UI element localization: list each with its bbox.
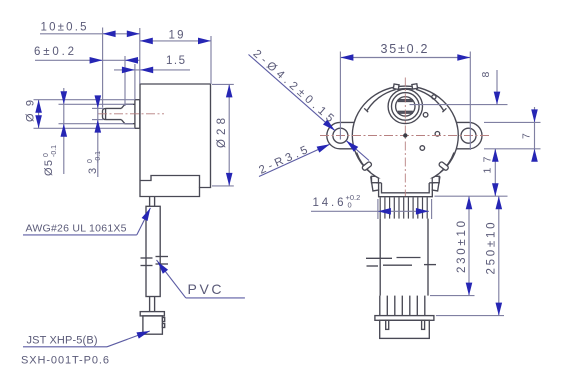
front view centerlines xyxy=(320,135,491,137)
arrow dim dia5 bottom xyxy=(61,124,68,137)
svg-text:-0.1: -0.1 xyxy=(95,151,102,163)
arrow dim 10 left xyxy=(103,31,116,38)
arrow dim 3 bottom xyxy=(95,120,102,133)
dim 7 line xyxy=(534,107,536,161)
can lip arc bottom-right xyxy=(440,153,454,173)
rim tick upper-left xyxy=(364,108,368,112)
right foot tab xyxy=(429,176,440,191)
connector front leg 2 xyxy=(422,320,425,329)
ext line body right xyxy=(210,36,212,84)
svg-text:JST XHP-5(B): JST XHP-5(B) xyxy=(27,334,98,346)
cable exit housing interior mask xyxy=(379,178,431,196)
rim tick upper-right xyxy=(442,108,446,112)
arrow dim 14.6 right xyxy=(416,208,429,215)
dim 35 line xyxy=(340,57,470,59)
can lip inner arc top xyxy=(367,89,444,111)
arrow dim 7 bottom xyxy=(531,149,538,162)
svg-text:0: 0 xyxy=(348,201,352,210)
svg-text:PVC: PVC xyxy=(188,281,222,297)
connector side view flange xyxy=(140,312,164,316)
arrow dim 1.5 left xyxy=(122,67,135,74)
svg-text:6±0.2: 6±0.2 xyxy=(34,46,74,58)
arrow dim 35 right xyxy=(457,54,470,61)
housing top caps xyxy=(376,182,381,184)
arrow dim 19 left xyxy=(140,38,153,45)
shaft collar xyxy=(135,100,140,129)
can lip arc bottom-left xyxy=(357,153,371,173)
face hole 1 xyxy=(423,113,428,118)
ext line shaft tip xyxy=(102,28,104,108)
right step block xyxy=(432,176,439,182)
shaft boss inner circle xyxy=(392,93,420,121)
bottom wires xyxy=(379,296,381,316)
connector side view body xyxy=(143,316,163,334)
arrow dim 19 right xyxy=(198,38,211,45)
center dot xyxy=(403,133,407,137)
left step block xyxy=(372,176,379,182)
cable exit housing outer xyxy=(379,183,433,197)
right ear hole xyxy=(461,128,476,143)
arrow dim 230 top xyxy=(466,196,473,209)
connector latch bumps xyxy=(162,318,164,322)
cable break dashes xyxy=(366,257,392,259)
leader lines xyxy=(23,55,369,347)
dim 10+-0.5 line xyxy=(40,33,140,35)
svg-text:Ø28: Ø28 xyxy=(216,118,228,148)
arrow leader dia4.2 lower xyxy=(344,138,358,152)
sleeve break marks xyxy=(141,257,153,259)
arrow dim dia28 bottom xyxy=(226,173,233,186)
connector front body xyxy=(380,320,430,338)
rim slot lower-right xyxy=(438,161,449,171)
leader JST xyxy=(23,346,107,348)
shaft boss outer circle xyxy=(388,89,422,123)
ribbon cable edges xyxy=(379,219,381,296)
arrow dim 14.6 left xyxy=(378,208,391,215)
arrow dim 17 top xyxy=(492,149,499,162)
left mounting ear xyxy=(327,122,371,148)
svg-text:Ø5: Ø5 xyxy=(43,160,55,176)
arrow dim dia5 top xyxy=(61,91,68,104)
arrow dim dia28 top xyxy=(226,84,233,97)
arrow dim 1.5 right xyxy=(140,67,153,74)
face hole 2 xyxy=(435,132,440,137)
dim 230 line xyxy=(468,196,470,295)
arrow dim 3 top xyxy=(95,95,102,108)
dim 19 line xyxy=(140,40,211,42)
dim dia9 line xyxy=(38,100,40,129)
face hole 3 xyxy=(420,146,425,151)
shaft centerline (side view) xyxy=(98,113,164,115)
svg-text:1.5: 1.5 xyxy=(166,55,185,67)
dim 1.5 line xyxy=(114,69,190,71)
svg-text:0: 0 xyxy=(43,153,50,157)
PVC sleeve tube xyxy=(146,206,160,296)
arrow dim 8 xyxy=(494,92,501,105)
dim 6+-0.2 line xyxy=(35,59,140,61)
dim 8 line xyxy=(496,70,498,105)
dim 3 line xyxy=(97,96,99,177)
wires below cap xyxy=(149,197,151,207)
arrow dim 250 top xyxy=(496,196,503,209)
arrow dim 230 bottom xyxy=(466,283,473,296)
svg-text:-0.1: -0.1 xyxy=(51,145,58,157)
arrow dim 35 left xyxy=(340,54,353,61)
dim 17 line xyxy=(494,149,496,196)
face hole 4 xyxy=(432,95,436,99)
can crimp tab top-left xyxy=(393,84,399,89)
leader AWG xyxy=(23,234,137,236)
shaft round section with chamfer xyxy=(121,104,135,123)
arrows xyxy=(35,31,538,339)
ext line body face xyxy=(139,28,141,84)
leader R3.5 xyxy=(259,144,330,176)
arrow leader PVC xyxy=(155,259,168,273)
svg-text:SXH-001T-P0.6: SXH-001T-P0.6 xyxy=(21,354,109,366)
arrow dim 250 bottom xyxy=(496,303,503,316)
arrow leader JST xyxy=(136,328,150,339)
svg-text:7: 7 xyxy=(521,133,533,139)
motor body circle xyxy=(352,86,458,185)
bottom cap step lines xyxy=(140,176,200,188)
dim dia5 line xyxy=(63,88,65,174)
arrow dim dia9 bottom xyxy=(35,115,42,128)
label 3 with tolerance xyxy=(87,151,102,174)
output shaft with flats xyxy=(396,97,415,116)
arrow leader dia4.2 upper xyxy=(323,120,337,134)
svg-text:8: 8 xyxy=(480,72,492,78)
left ear hole xyxy=(333,128,348,143)
arrow dim 6 right xyxy=(125,57,138,64)
arrow leader R3.5 xyxy=(317,141,332,152)
cable exit housing inner xyxy=(382,183,430,193)
arrow dim dia9 top xyxy=(35,100,42,113)
leader PVC xyxy=(186,297,245,299)
can crimp tab top-right xyxy=(412,84,418,89)
arrow leader AWG xyxy=(142,206,154,221)
connector front flange xyxy=(375,316,434,321)
motor body side view outline xyxy=(140,84,211,197)
ext line collar left xyxy=(134,64,136,100)
dim 14.6 line xyxy=(311,210,429,212)
svg-text:14.6: 14.6 xyxy=(313,197,344,209)
dim 250 line xyxy=(498,196,500,315)
left foot tab xyxy=(371,176,382,191)
svg-text:AWG#26 UL 1061X5: AWG#26 UL 1061X5 xyxy=(26,223,127,235)
svg-text:3: 3 xyxy=(87,168,99,174)
shaft flat section with rounded tip xyxy=(103,108,122,119)
arrow dim 7 top xyxy=(531,109,538,122)
leader dia4.2 xyxy=(249,55,335,131)
grommet ribs xyxy=(380,197,427,218)
right mounting ear xyxy=(438,122,482,148)
arrow dim 6 left xyxy=(90,57,103,64)
arrow dim 17 bottom xyxy=(492,183,499,196)
label dia5 with tolerance xyxy=(43,145,58,176)
connector front leg 1 xyxy=(386,320,389,329)
dim dia28 line xyxy=(228,84,230,185)
rim slot lower-left xyxy=(361,161,372,171)
svg-text:0: 0 xyxy=(87,159,94,163)
lower wires xyxy=(149,297,151,312)
arrow dim 10 right xyxy=(127,31,140,38)
ext line flat end xyxy=(124,56,126,106)
